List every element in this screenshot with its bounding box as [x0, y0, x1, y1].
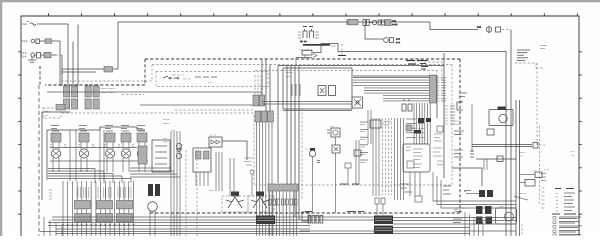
- svg-text:968-R: 968-R: [520, 192, 527, 195]
- harness wires into strip: [353, 78, 430, 101]
- controller inner box top: [353, 76, 437, 118]
- pressure switch PS2: [248, 192, 274, 213]
- wire bundle center: [262, 59, 299, 220]
- connector strip CN30: [430, 75, 437, 103]
- motor component C: [305, 148, 320, 214]
- harness labels on dashed line: [406, 61, 424, 65]
- svg-text:A-14: A-14: [392, 23, 398, 26]
- dark block left: [256, 216, 275, 225]
- relay module box: [370, 120, 391, 128]
- panel verticals: [70, 127, 104, 181]
- verticals below ECM: [410, 172, 420, 196]
- fusible link FL3 FL4 with connector: [21, 52, 62, 59]
- inline connector: [497, 156, 503, 162]
- sub box drop wires: [368, 110, 371, 144]
- controller box right edge: [443, 53, 445, 178]
- sensor pair column: [354, 140, 361, 185]
- wire harness pair to engine connector: [62, 69, 104, 75]
- light plug row: [308, 216, 323, 224]
- svg-text:(#D): (#D): [544, 168, 549, 171]
- svg-text:968-E: 968-E: [163, 118, 170, 121]
- bottom right nested corners: [465, 212, 483, 236]
- small box on pin: [302, 212, 309, 221]
- relay K3: [105, 126, 115, 173]
- junction block row A: [64, 84, 100, 97]
- L wires to right bus: [433, 172, 516, 208]
- ECM right labels: [433, 148, 442, 156]
- svg-text:F1 F2: F1 F2: [300, 40, 307, 43]
- connector stack CN3: [253, 75, 265, 106]
- pilot relay sub box: [283, 68, 352, 111]
- svg-text:GND: GND: [454, 208, 459, 211]
- pin digit marks row: [50, 145, 134, 147]
- ECM dark marks: [406, 118, 431, 134]
- wire main feed riser: [113, 22, 479, 69]
- inner vertical bundle solid 2: [395, 118, 404, 200]
- wire bundle from fusible links: [60, 24, 78, 86]
- dash-dot border left of relay panel: [38, 85, 40, 236]
- bottom bus wires long: [48, 217, 516, 234]
- pin tick marks: [62, 224, 135, 226]
- key switch dashed enclosure left: [45, 59, 145, 85]
- svg-text:SHT: SHT: [571, 154, 576, 157]
- connector pins descending: [257, 122, 273, 236]
- svg-text:RLY: RLY: [45, 114, 50, 117]
- wire row to battery: [472, 145, 532, 147]
- wire right drop: [505, 52, 507, 237]
- timer module: [152, 140, 170, 172]
- right verticals: [516, 100, 520, 236]
- wire number labels: [78, 187, 131, 198]
- battery ground symbol: [28, 55, 36, 63]
- connector pair X10: [363, 20, 398, 27]
- note box: [43, 105, 65, 119]
- fuse block F1 F2: [298, 27, 319, 44]
- dashed drop right 2: [539, 126, 541, 205]
- dashed drop right: [536, 63, 538, 145]
- light dashed guide line: [62, 112, 254, 114]
- svg-text:SV1: SV1: [330, 125, 335, 128]
- connector on harness: [104, 67, 113, 73]
- right bus extension: [470, 218, 516, 225]
- wire main riser right: [510, 30, 512, 237]
- wire mid dashes: [175, 109, 255, 111]
- flasher module: [193, 148, 211, 186]
- dashed jog: [515, 63, 544, 68]
- nested feeder wires: [130, 168, 180, 177]
- left vertical bundle: [171, 131, 180, 236]
- inner pin label rows: [360, 122, 368, 162]
- corner drop wires: [44, 217, 62, 236]
- inner vertical bundle solid: [373, 118, 379, 196]
- frame tick marks right: [579, 52, 582, 214]
- inner dashed line 2: [152, 64, 452, 66]
- left text rows bottom: [453, 191, 471, 223]
- main dashed enclosure right edge: [459, 59, 461, 213]
- connector row hatch: [75, 201, 133, 222]
- third dashed line: [255, 71, 437, 77]
- wire mid bus 2: [140, 104, 260, 106]
- svg-text:ALT: ALT: [316, 58, 321, 61]
- switch S1: [520, 169, 542, 178]
- relay K1: [51, 126, 61, 173]
- connector stack CN4: [255, 111, 273, 122]
- relay K5: [137, 126, 147, 173]
- relay panel enclosure: [42, 112, 70, 200]
- svg-text:BATT: BATT: [331, 45, 337, 48]
- battery connector: [533, 143, 545, 149]
- wire mid bus: [47, 91, 262, 93]
- relay tie wires: [50, 148, 148, 162]
- controller box left edge: [278, 66, 444, 184]
- codes: [519, 151, 526, 158]
- relay K4: [121, 126, 131, 173]
- code label: [514, 192, 528, 200]
- relay K6: [148, 184, 160, 236]
- parts table header: [555, 188, 574, 190]
- text labels right of L wires: [443, 186, 451, 194]
- labels on inner dashed bottom: [340, 183, 359, 185]
- svg-text:FL2: FL2: [22, 40, 28, 43]
- svg-text:CN21: CN21: [286, 75, 292, 78]
- dashed verticals 2: [186, 150, 197, 236]
- solenoid component B: [332, 145, 340, 213]
- wire battery dashed drop: [39, 66, 41, 85]
- stub pair: [484, 159, 487, 170]
- inner dashed right edge: [451, 65, 453, 186]
- comb connector row: [268, 184, 298, 236]
- tiny numbers column: [542, 188, 545, 208]
- connector darks row3: [476, 217, 492, 225]
- svg-text:AR12: AR12: [45, 110, 51, 113]
- key switch dashed enclosure top: [145, 58, 460, 60]
- key switch box: [156, 72, 268, 87]
- diode block: [138, 146, 147, 164]
- comb second row marks: [269, 199, 297, 205]
- glow plug label: [454, 120, 460, 127]
- bus bar: [299, 44, 337, 51]
- wire row 2: [476, 158, 516, 160]
- svg-text:968-D: 968-D: [286, 71, 293, 74]
- svg-text:TX1: TX1: [208, 81, 213, 84]
- small connector above stack: [415, 196, 422, 202]
- right column extra rows: [434, 134, 443, 165]
- svg-text:OFF ON ST: OFF ON ST: [172, 74, 185, 77]
- svg-text:FUEL: FUEL: [499, 205, 505, 208]
- strip right stubs and labels: [437, 78, 447, 101]
- starter motor box: [489, 107, 513, 126]
- wire bundle below strip: [414, 103, 430, 144]
- svg-text:FL4: FL4: [21, 56, 27, 59]
- connector row X9 hatched: [347, 19, 358, 25]
- small symbol below: [250, 170, 254, 196]
- scan margin top: [0, 0, 600, 2]
- scan margin left: [0, 0, 2, 236]
- svg-text:KEY SW: KEY SW: [183, 78, 192, 81]
- svg-text:968-C 968-J: 968-C 968-J: [101, 91, 116, 94]
- frame tick marks left: [18, 52, 21, 214]
- connector pin field: [63, 181, 134, 236]
- dark stub: [338, 55, 346, 57]
- ECM interior extra rows: [406, 147, 422, 168]
- dashed bottom inner: [255, 184, 452, 186]
- inner vertical bundle dashed: [383, 118, 392, 195]
- fusible link FL2 with connector: [22, 39, 60, 44]
- circuit breaker 50A: [477, 26, 509, 34]
- parts table rows: [556, 192, 576, 213]
- wire pair to cab: [262, 102, 352, 105]
- junction block row B: [64, 99, 100, 109]
- ECM text block: [406, 119, 425, 137]
- ECM module box: [403, 144, 430, 172]
- inline marks: [470, 151, 474, 157]
- svg-text:968-B 968-H: 968-B 968-H: [101, 87, 116, 90]
- svg-text:968-F: 968-F: [163, 122, 170, 125]
- temperature sender: [163, 137, 182, 159]
- legend header: [552, 213, 576, 215]
- svg-text:968-T: 968-T: [209, 189, 216, 192]
- page ref: [571, 150, 576, 157]
- switch box with X: [352, 97, 363, 108]
- extra bus lines: [40, 232, 310, 234]
- connector X11: [384, 38, 401, 45]
- connector darks row1: [464, 190, 493, 197]
- inner dashed line 2 left: [60, 65, 152, 82]
- small label top: [540, 46, 547, 49]
- wire FL1 feed: [37, 23, 68, 25]
- bottom text rows above dashed: [400, 184, 412, 192]
- label 968 connector codes: [101, 87, 144, 95]
- svg-text:24V: 24V: [519, 155, 524, 158]
- legend symbol rows: [553, 217, 582, 237]
- svg-text:5-7: 5-7: [571, 150, 576, 153]
- diode assembly: [209, 134, 247, 161]
- left text rows: [454, 131, 464, 157]
- fuse box right: [452, 168, 482, 186]
- connector darks row2: [454, 206, 492, 214]
- solenoid component A: [327, 125, 340, 145]
- main dashed enclosure bottom: [150, 212, 460, 214]
- nested wires: [48, 169, 131, 184]
- wire feed step: [313, 44, 506, 53]
- svg-text:B-2: B-2: [396, 41, 401, 44]
- dashed stub: [341, 44, 343, 56]
- marks column: [49, 190, 52, 199]
- pressure switch PS1: [222, 192, 248, 213]
- C clamp symbol: [457, 101, 463, 111]
- left vertical: [471, 104, 473, 152]
- labels on main dashed bottom: [305, 211, 364, 213]
- bulkhead connector stack dark: [374, 216, 393, 235]
- svg-text:50A: 50A: [477, 26, 482, 29]
- wire branch to lower connector: [365, 26, 383, 40]
- pin number labels right box edge: [444, 106, 455, 124]
- note text block: [517, 50, 530, 60]
- svg-text:D1 D2: D1 D2: [210, 134, 217, 137]
- text cluster left of dashes: [244, 158, 253, 165]
- aux box right: [520, 180, 535, 187]
- relay box R1: [296, 51, 321, 65]
- coil pair: [402, 100, 412, 111]
- mid text rows: [459, 93, 467, 97]
- small cluster mid-left: [345, 163, 351, 185]
- relay K2: [79, 126, 89, 173]
- frame tick marks top: [49, 13, 578, 16]
- svg-text:TEMP: TEMP: [163, 141, 169, 144]
- extra verticals mid-left: [216, 152, 234, 196]
- dashed stub bottom: [521, 224, 523, 236]
- gauge motor: [496, 205, 517, 224]
- small rect right col: [437, 126, 443, 132]
- fusible link FL1: [22, 22, 36, 27]
- harness codes: [163, 118, 175, 132]
- dashed connector box top left of inner box: [420, 61, 442, 81]
- svg-text:PLUG: PLUG: [454, 123, 460, 126]
- plug symbols above stack: [375, 198, 385, 215]
- dashed drop from sub box: [301, 108, 303, 200]
- dashed vertical: [253, 115, 255, 185]
- svg-text:FL1: FL1: [22, 23, 28, 26]
- small box: [487, 129, 494, 135]
